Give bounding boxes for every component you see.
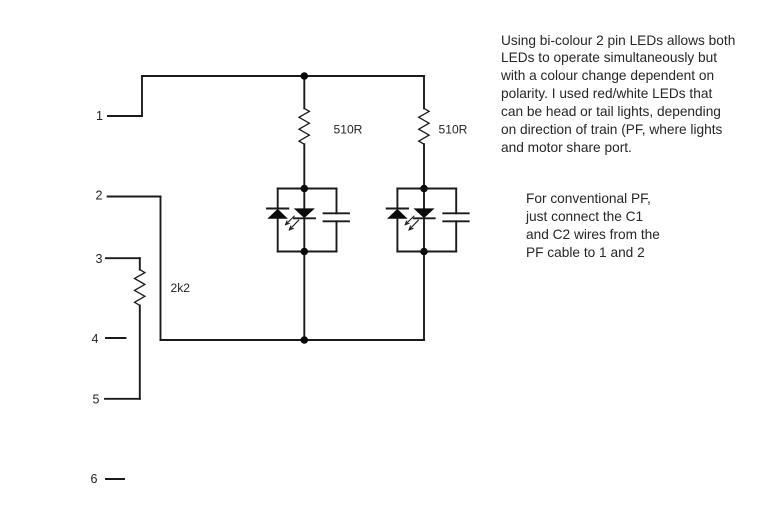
node LED2 bottom [397, 251, 456, 253]
wire bottom rail [161, 339, 425, 341]
junction dot LED2 top [420, 185, 428, 193]
wire riser terminal 2 to bottom rail [160, 197, 162, 341]
svg-text:2: 2 [96, 189, 103, 203]
wire LED1 right branch top [336, 189, 338, 214]
terminal 5 stub [105, 398, 140, 400]
terminal 6 stub [106, 478, 124, 480]
svg-text:1: 1 [96, 109, 103, 123]
LED1 emission arrow b [289, 220, 298, 230]
wire LED2 right branch top [455, 189, 457, 214]
wire LED2 mid branch bottom [423, 218, 425, 251]
junction dot bottom rail [301, 336, 309, 344]
wire R1 top lead [303, 76, 305, 108]
diode D1a cathode bar [267, 208, 288, 210]
wire LED2 to bottom rail [423, 252, 425, 341]
terminal 1 stub [108, 115, 142, 117]
note paragraph 1 [501, 32, 751, 157]
svg-text:510R: 510R [439, 123, 468, 137]
svg-text:2k2: 2k2 [171, 281, 191, 295]
LED1 emission arrow a [286, 216, 295, 225]
terminal 3 stub [106, 257, 140, 259]
svg-text:6: 6 [91, 472, 98, 486]
resistor R3 2k2 zigzag [135, 270, 145, 306]
junction dot LED1 bottom [301, 248, 309, 256]
diode D2b triangle (points down) [414, 208, 435, 218]
diode D2a triangle (points up) [387, 209, 408, 219]
svg-text:3: 3 [96, 252, 103, 266]
wire R3 top lead [139, 258, 141, 269]
diode D1a triangle (points up) [267, 209, 288, 219]
diode D1b cathode bar [294, 217, 315, 219]
wire R2 bottom lead [423, 144, 425, 188]
svg-text:4: 4 [92, 332, 99, 346]
wire LED1 to bottom rail [303, 252, 305, 341]
wire LED2 mid branch top [423, 189, 425, 209]
node LED1 top [278, 188, 337, 190]
wire LED2 left branch bottom [396, 219, 398, 252]
diode D1b triangle (points down) [294, 208, 315, 218]
resistor R2 510R zigzag [419, 108, 429, 144]
wire R3 bottom lead to terminal 5 [139, 305, 141, 398]
wire LED1 left branch bottom [277, 219, 279, 252]
svg-text:510R: 510R [334, 123, 363, 137]
terminal 4 stub [106, 337, 126, 339]
junction dot top rail / R1 [301, 72, 309, 80]
node LED1 bottom [278, 251, 337, 253]
capacitor C2 bottom plate [443, 220, 468, 222]
capacitor C1 top plate [324, 212, 349, 214]
diode D2b cathode bar [414, 217, 435, 219]
wire R2 top lead [423, 76, 425, 108]
junction dot LED1 top [301, 185, 309, 193]
wire top rail [142, 75, 424, 77]
resistor R1 510R zigzag [299, 108, 309, 144]
LED2 emission arrow a [405, 216, 414, 225]
capacitor C1 bottom plate [324, 220, 349, 222]
wire LED2 right branch bottom [455, 221, 457, 251]
junction dot LED2 bottom [420, 248, 428, 256]
wire LED1 left branch top [277, 189, 279, 209]
node LED2 top [397, 188, 456, 190]
LED2 emission arrow b [409, 220, 418, 230]
wire LED1 mid branch bottom [303, 218, 305, 251]
wire LED1 mid branch top [303, 189, 305, 209]
capacitor C2 top plate [443, 212, 468, 214]
terminal 2 stub [108, 196, 161, 198]
svg-text:5: 5 [93, 392, 100, 406]
note paragraph 2 [526, 190, 746, 261]
wire R1 bottom lead [303, 144, 305, 188]
diode D2a cathode bar [387, 208, 408, 210]
wire riser terminal 1 to top rail [141, 76, 143, 116]
wire LED1 right branch bottom [336, 221, 338, 251]
wire LED2 left branch top [396, 189, 398, 209]
